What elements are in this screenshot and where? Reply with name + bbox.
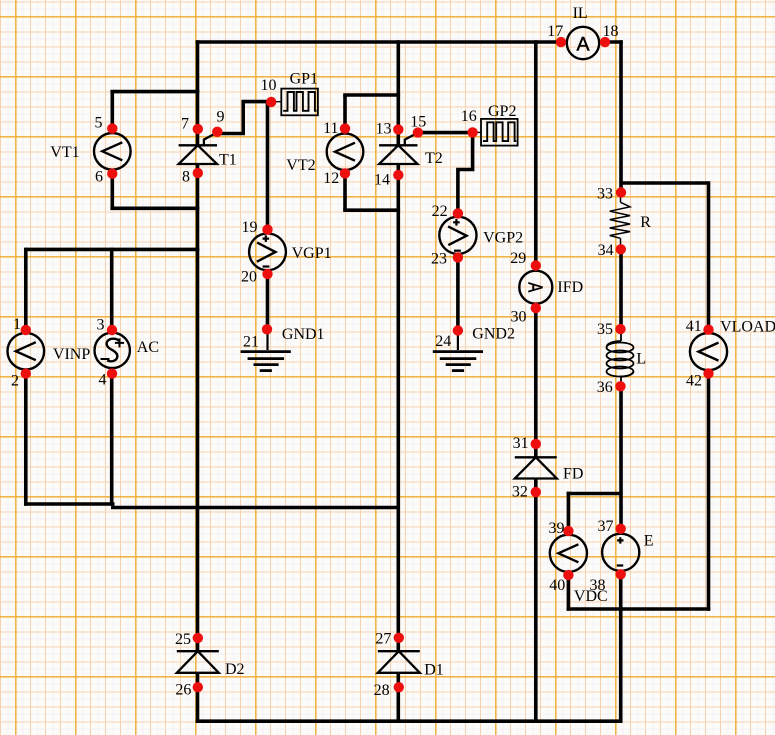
- svg-text:39: 39: [549, 520, 565, 537]
- svg-text:23: 23: [431, 251, 447, 268]
- svg-text:AC: AC: [137, 339, 159, 356]
- svg-text:28: 28: [374, 682, 390, 699]
- svg-text:33: 33: [597, 185, 613, 202]
- svg-text:11: 11: [323, 120, 338, 137]
- svg-text:FD: FD: [563, 465, 583, 482]
- svg-text:VT1: VT1: [50, 144, 79, 161]
- svg-text:27: 27: [375, 631, 391, 648]
- svg-text:D2: D2: [225, 661, 245, 678]
- svg-text:VGP2: VGP2: [483, 230, 523, 247]
- svg-text:42: 42: [686, 372, 702, 389]
- svg-text:GND2: GND2: [472, 326, 515, 343]
- svg-text:19: 19: [242, 219, 258, 236]
- svg-text:18: 18: [603, 23, 619, 40]
- svg-text:3: 3: [97, 316, 105, 333]
- svg-text:30: 30: [511, 309, 527, 326]
- svg-text:2: 2: [11, 372, 19, 389]
- svg-text:29: 29: [510, 250, 526, 267]
- svg-text:31: 31: [513, 435, 529, 452]
- svg-text:T2: T2: [425, 150, 443, 167]
- svg-text:40: 40: [549, 577, 565, 594]
- svg-text:A: A: [576, 34, 589, 56]
- svg-text:IL: IL: [573, 5, 588, 22]
- svg-text:GP2: GP2: [488, 103, 516, 120]
- svg-text:5: 5: [95, 115, 103, 132]
- svg-text:D1: D1: [424, 662, 444, 679]
- svg-text:VGP1: VGP1: [292, 245, 332, 262]
- svg-text:36: 36: [597, 379, 613, 396]
- svg-text:15: 15: [410, 114, 426, 131]
- svg-text:1: 1: [13, 316, 21, 333]
- svg-text:14: 14: [374, 172, 390, 189]
- svg-text:VT2: VT2: [286, 157, 315, 174]
- svg-text:34: 34: [598, 242, 614, 259]
- svg-text:32: 32: [512, 484, 528, 501]
- svg-text:L: L: [636, 351, 646, 368]
- svg-text:37: 37: [598, 518, 614, 535]
- svg-text:E: E: [644, 533, 654, 550]
- svg-text:IFD: IFD: [557, 279, 583, 296]
- svg-text:21: 21: [243, 334, 259, 351]
- svg-text:12: 12: [323, 170, 339, 187]
- svg-text:VLOAD: VLOAD: [720, 319, 775, 336]
- svg-text:26: 26: [175, 682, 191, 699]
- svg-text:24: 24: [435, 333, 451, 350]
- svg-text:GP1: GP1: [290, 70, 318, 87]
- svg-text:A: A: [524, 282, 547, 292]
- svg-text:16: 16: [461, 108, 477, 125]
- svg-text:9: 9: [217, 109, 225, 126]
- svg-text:41: 41: [686, 318, 702, 335]
- svg-text:35: 35: [597, 321, 613, 338]
- svg-text:GND1: GND1: [282, 326, 325, 343]
- svg-text:22: 22: [432, 203, 448, 220]
- svg-text:8: 8: [182, 169, 190, 186]
- svg-text:13: 13: [376, 121, 392, 138]
- svg-text:20: 20: [241, 269, 257, 286]
- svg-text:4: 4: [99, 371, 107, 388]
- svg-text:10: 10: [261, 77, 277, 94]
- svg-text:R: R: [640, 214, 651, 231]
- svg-text:VINP: VINP: [53, 346, 90, 363]
- svg-text:38: 38: [590, 577, 606, 594]
- svg-text:6: 6: [95, 169, 103, 186]
- svg-text:17: 17: [547, 23, 563, 40]
- svg-text:25: 25: [175, 631, 191, 648]
- svg-text:T1: T1: [219, 151, 237, 168]
- svg-text:7: 7: [181, 116, 189, 133]
